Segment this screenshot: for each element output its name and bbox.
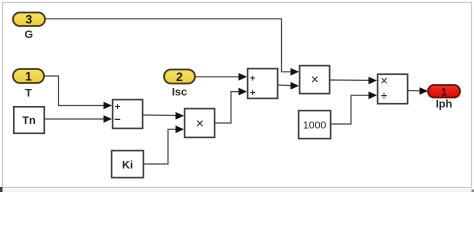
- scrollbar corner mark bottom-left: [0, 187, 3, 192]
- svg-text:1: 1: [25, 69, 32, 83]
- sum block Sum1 (+ -): [113, 100, 143, 129]
- wire W7: Isc inport to Sum2 upper + input: [195, 73, 247, 81]
- wire W9: Product2 output to Divide x input: [330, 77, 377, 85]
- svg-text:1000: 1000: [303, 120, 327, 132]
- svg-text:3: 3: [25, 13, 32, 27]
- svg-text:Ki: Ki: [122, 159, 133, 171]
- constant Tn: [14, 107, 45, 134]
- svg-text:Tn: Tn: [22, 115, 36, 127]
- scrollbar corner mark bottom-right: [472, 190, 474, 193]
- inport 1 (T): [13, 69, 44, 83]
- product block Product1 (x): [185, 109, 215, 138]
- constant Ki: [112, 151, 144, 178]
- svg-text:×: ×: [311, 72, 319, 87]
- svg-text:+: +: [250, 73, 256, 84]
- product block Product2 (x): [300, 66, 330, 94]
- inport 3 (G): [13, 13, 45, 27]
- wire W1: G inport to Product2 top input: [45, 19, 299, 76]
- inport 2 (Isc): [164, 70, 195, 85]
- wire W2: T inport to Sum1 + input: [44, 76, 112, 109]
- svg-text:+: +: [250, 87, 256, 98]
- constant 1000: [299, 111, 331, 139]
- canvas frame: [3, 3, 472, 188]
- svg-text:−: −: [114, 114, 120, 126]
- svg-text:Iph: Iph: [436, 98, 453, 110]
- canvas background: [0, 0, 474, 192]
- svg-text:+: +: [115, 102, 121, 113]
- wire W4: Sum1 output to Product1 top input: [143, 112, 184, 120]
- svg-text:1: 1: [441, 86, 447, 98]
- sum block Sum2 (+ +): [248, 69, 278, 99]
- svg-text:Isc: Isc: [172, 87, 187, 99]
- wire W11: Divide output to Iph outport: [408, 87, 428, 95]
- svg-text:×: ×: [196, 116, 204, 131]
- wire W10: 1000 constant to Divide divisor input: [331, 92, 377, 125]
- svg-text:T: T: [25, 88, 32, 100]
- svg-text:×: ×: [381, 74, 388, 88]
- svg-text:2: 2: [176, 70, 183, 84]
- wire W5: Ki gain to Product1 bottom input: [144, 126, 184, 165]
- svg-text:÷: ÷: [381, 90, 387, 102]
- wire W3: Tn constant to Sum1 - input: [45, 115, 112, 123]
- wire W6: Product1 output to Sum2 lower + input: [215, 88, 247, 123]
- wire W8: Sum2 output to Product2 bottom input: [278, 82, 299, 90]
- outport 1 (Iph): [428, 85, 460, 98]
- divide block Divide (x over division): [378, 74, 408, 104]
- svg-text:G: G: [25, 29, 34, 41]
